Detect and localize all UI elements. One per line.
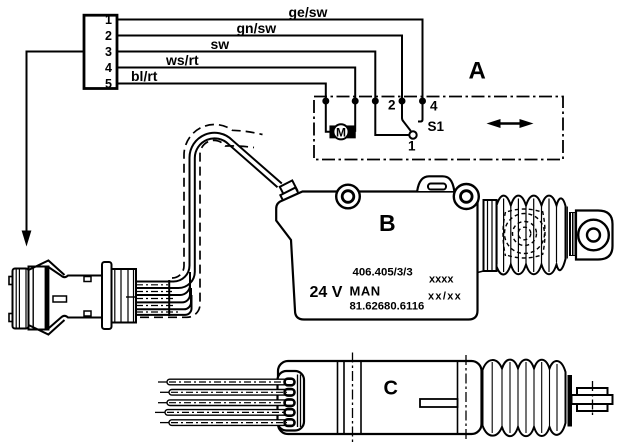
wire bl/rt pin5 [117,84,326,102]
C wire centerlines [167,382,287,423]
motor brush left [330,126,337,137]
switch S1 contact stub [418,101,423,122]
svg-text:3: 3 [105,45,112,59]
node dot contact4 [419,98,426,105]
wire sw pin3 [117,52,375,102]
bellows C [483,360,566,437]
C internal line 1 [337,362,339,433]
switch S1 pivot [409,131,416,138]
plug tab bottom-left [9,314,14,322]
svg-text:1: 1 [105,13,112,27]
wire ge/sw pin1 to contact 4 [117,20,423,102]
harness dash centerline 2 [136,291,172,293]
double arrow [487,119,534,128]
plug left cap [13,269,29,329]
svg-text:S1: S1 [428,119,445,134]
C wire end caps [285,379,295,426]
wire stub inside barrel [126,296,136,298]
C rod end block [577,388,608,411]
bellows C end collar [568,375,573,427]
plug flange [102,262,112,329]
node dot 2 [352,98,359,105]
C grommet [278,371,305,431]
harness clamp bar [168,280,170,316]
connector X1 block [84,15,117,88]
actuator C body [278,361,482,434]
plug latch bottom [29,320,65,335]
harness wire line 6 [136,295,192,315]
svg-text:5: 5 [105,77,112,91]
harness wire line 4 [136,280,190,302]
wire gn/sw pin2 to contact 2 [117,36,402,102]
node dot contact2 [399,98,406,105]
svg-text:4: 4 [105,61,112,75]
harness outer dashed boundary [172,124,263,278]
svg-text:1: 1 [408,139,416,154]
plug tab top-left [9,277,14,285]
node dot 1 [322,98,329,105]
svg-text:81.62680.6116: 81.62680.6116 [350,301,425,313]
plug slot [53,296,67,302]
clevis B [576,211,613,260]
C internal line 2 [343,362,345,433]
harness dash centerline 5 [136,311,178,313]
C rod end centerline [592,381,594,418]
bracket tab [417,176,454,191]
bellows B neck [478,200,497,273]
box A dash-dot frame [314,97,563,160]
svg-text:sw: sw [211,36,230,52]
svg-text:gn/sw: gn/sw [237,20,277,36]
switch S1 common wire [375,101,409,135]
actuator B body [276,192,477,320]
motor frame [330,126,355,137]
bellows B end collar [566,207,568,259]
C centerline 1 [352,353,354,443]
mounting ring left [336,185,360,209]
harness dash centerline 3 [136,298,174,300]
plug disc [29,267,49,330]
svg-text:B: B [379,210,396,236]
plug connector [9,261,136,335]
svg-text:406.405/3/3: 406.405/3/3 [353,267,413,279]
C wires [165,379,295,425]
C rod [420,399,458,407]
hidden ball dashed [503,209,545,258]
plug tab on barrel bottom [84,311,91,316]
svg-text:xx/xx: xx/xx [428,291,462,303]
cable ferrule [280,180,297,196]
harness wire line 5 [136,288,191,309]
svg-text:xxxx: xxxx [429,273,454,285]
bellows B fold lines [497,199,557,273]
svg-text:M: M [336,125,346,139]
svg-text:A: A [469,58,486,85]
svg-text:MAN: MAN [350,284,381,299]
motor brush right [348,126,355,137]
harness inner dashed boundary [140,140,254,317]
svg-text:C: C [384,378,398,400]
harness dash centerline 4 [136,305,176,307]
plug right barrel [112,269,137,323]
node dot 3 [372,98,379,105]
svg-text:ge/sw: ge/sw [289,4,328,20]
svg-text:2: 2 [105,29,112,43]
plug tab on barrel top [84,277,91,282]
svg-text:ws/rt: ws/rt [165,52,199,68]
harness wire line 1 [136,133,282,282]
motor M wiring [326,101,330,132]
svg-text:24 V: 24 V [310,284,343,301]
svg-text:4: 4 [430,99,438,114]
harness wire line 2 [136,138,278,288]
C internal line 4 [457,362,459,433]
pointer wire to plug [27,52,85,233]
wire ws/rt pin4 [117,68,355,102]
harness wire line 3 [136,272,190,295]
plug latch top [29,261,65,276]
arrowhead [22,231,32,247]
switch S1 lever [402,101,411,131]
bellows B [497,196,566,275]
C rod end pin [572,395,613,404]
svg-text:bl/rt: bl/rt [131,68,158,84]
C centerline 2 [465,355,467,441]
C internal line 3 [360,362,362,433]
plug barrel [48,267,102,329]
mounting ring right [454,184,479,209]
motor M1 body [333,124,348,139]
harness dash centerline 1 [136,284,168,286]
bellows C fold lines [492,362,557,433]
C wire leads [155,382,169,423]
harness [136,124,299,317]
svg-text:2: 2 [388,98,396,113]
